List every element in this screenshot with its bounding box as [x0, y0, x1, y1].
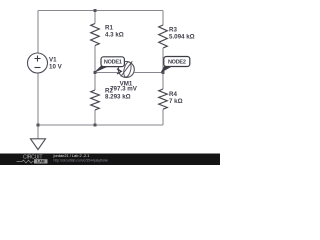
- resistor R3: [159, 25, 195, 48]
- svg-text:5.094 kΩ: 5.094 kΩ: [169, 33, 195, 40]
- footer logo zigzag: [17, 160, 34, 163]
- svg-text:V1: V1: [49, 57, 57, 64]
- junction dot bottom mid (95,125): [94, 124, 97, 127]
- voltage source V1: [28, 53, 63, 73]
- wire left rail upper: [37, 11, 39, 54]
- footer logo LAB badge: [34, 159, 48, 163]
- voltmeter VM1: [110, 61, 138, 92]
- svg-text:NODE2: NODE2: [168, 60, 186, 66]
- junction dot node2 (163,72.5): [162, 71, 165, 74]
- svg-text:R4: R4: [169, 91, 177, 98]
- svg-text:8.293 kΩ: 8.293 kΩ: [105, 94, 131, 101]
- svg-text:4.3 kΩ: 4.3 kΩ: [105, 31, 124, 38]
- svg-text:797.3 mV: 797.3 mV: [110, 86, 138, 93]
- ground: [31, 139, 46, 150]
- svg-text:R3: R3: [169, 26, 177, 33]
- wire top rail: [38, 10, 163, 12]
- junction dot node1 (95,72.5): [94, 71, 97, 74]
- resistor R1: [91, 24, 124, 46]
- resistor R2: [91, 87, 131, 110]
- wire R4 leads: [162, 73, 164, 126]
- wire node row left: [95, 72, 118, 74]
- wire node row right: [135, 72, 164, 74]
- svg-text:NODE1: NODE1: [104, 60, 122, 66]
- resistor R4: [159, 89, 183, 109]
- node NODE2 flag: [161, 57, 190, 73]
- svg-text:http://circuitlab.com/c/3544pl: http://circuitlab.com/c/3544playtbske: [54, 158, 109, 162]
- junction dot bottom left (38,125): [37, 124, 40, 127]
- node NODE1 flag: [95, 57, 125, 73]
- wire ground stem: [37, 125, 39, 139]
- junction dot top (95,10.5): [94, 9, 97, 12]
- svg-text:7 kΩ: 7 kΩ: [169, 98, 183, 105]
- wire left rail lower: [37, 73, 39, 125]
- svg-text:LAB: LAB: [37, 159, 45, 164]
- wire R2 leads: [94, 73, 96, 126]
- wire bottom rail: [38, 124, 163, 126]
- footer bar: [0, 154, 220, 166]
- wire R1 leads: [94, 11, 96, 73]
- wire R3 leads: [162, 11, 164, 73]
- svg-text:10 V: 10 V: [49, 64, 63, 71]
